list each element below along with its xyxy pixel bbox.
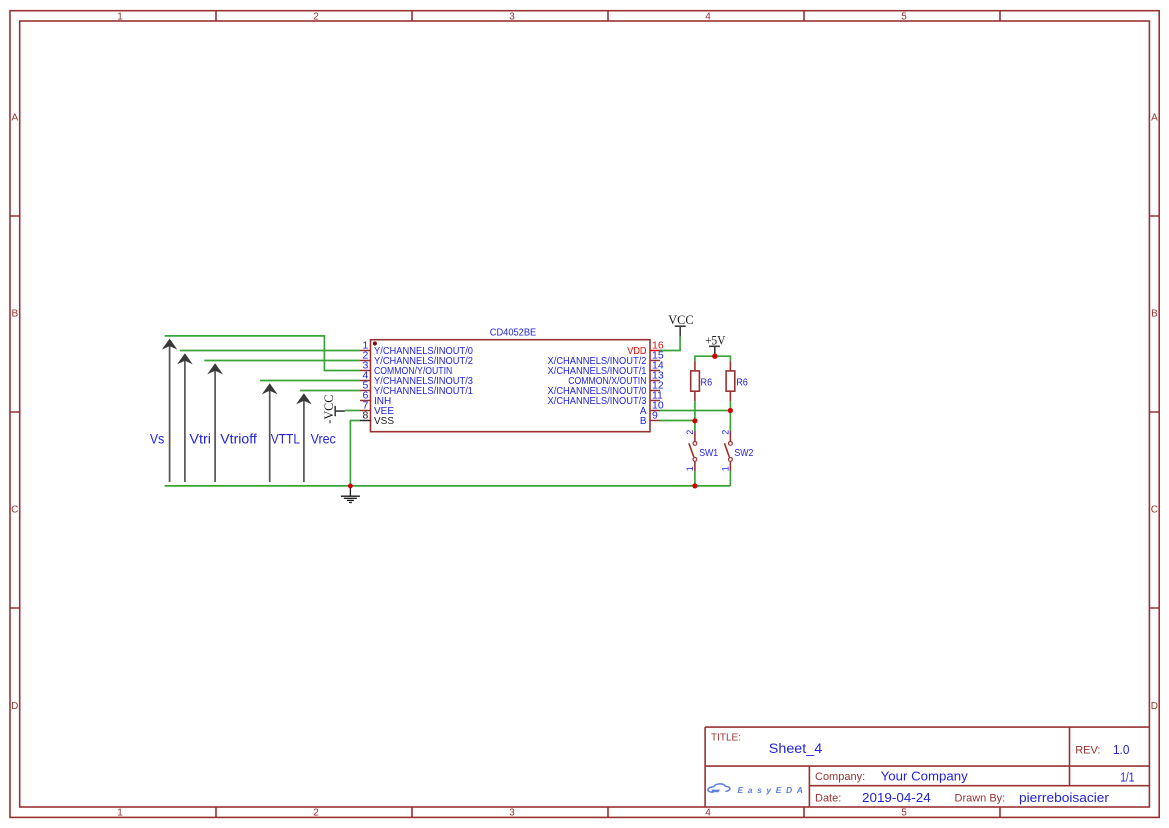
- wire R6a bottom to SW1 node B: [694, 401, 696, 431]
- svg-text:A: A: [11, 113, 18, 124]
- wire net Vrec to pin5: [300, 390, 360, 392]
- svg-text:2: 2: [721, 430, 731, 435]
- svg-text:Vs: Vs: [150, 431, 165, 446]
- svg-text:2019-04-24: 2019-04-24: [862, 790, 931, 805]
- power flag -VCC: [322, 395, 345, 424]
- wire R6b bottom to SW2 node A: [729, 401, 731, 431]
- power flag VCC: [668, 313, 693, 336]
- svg-text:Drawn By:: Drawn By:: [955, 793, 1006, 805]
- EasyEDA logo: [708, 784, 808, 795]
- wire -VCC to pin7 VEE: [345, 410, 360, 412]
- wire net VTTL to pin4: [260, 380, 360, 382]
- pin 1 Y/CHANNELS/INOUT/0: [360, 340, 473, 358]
- svg-text:8: 8: [362, 410, 368, 422]
- svg-text:SW1: SW1: [699, 448, 718, 459]
- svg-text:Vtri: Vtri: [189, 431, 211, 446]
- svg-text:3: 3: [509, 808, 515, 819]
- pin 16 VDD: [627, 340, 664, 358]
- pin 9 B: [640, 410, 660, 428]
- junction node A: [728, 408, 733, 413]
- svg-text:Date:: Date:: [815, 793, 841, 805]
- title block: [705, 727, 1149, 807]
- svg-text:1: 1: [721, 466, 731, 471]
- svg-text:pierreboisacier: pierreboisacier: [1019, 790, 1110, 805]
- svg-text:TITLE:: TITLE:: [711, 732, 741, 743]
- wire pin10 A row: [660, 410, 731, 412]
- svg-text:VSS: VSS: [374, 416, 394, 427]
- pin 5 Y/CHANNELS/INOUT/1: [360, 380, 473, 398]
- arrow VTTL: [262, 383, 278, 482]
- pin 10 A: [640, 400, 664, 418]
- svg-text:C: C: [11, 505, 18, 516]
- svg-text:B: B: [640, 416, 647, 427]
- svg-text:Vtrioff: Vtrioff: [220, 431, 257, 446]
- pin 12 X/CHANNELS/INOUT/0: [548, 380, 664, 398]
- svg-text:9: 9: [652, 410, 658, 422]
- pin 8 VSS: [360, 410, 394, 428]
- pin 2 Y/CHANNELS/INOUT/2: [360, 350, 473, 368]
- junction node B: [692, 418, 697, 423]
- svg-text:X/CHANNELS/INOUT/3: X/CHANNELS/INOUT/3: [548, 396, 647, 407]
- svg-text:B: B: [1151, 309, 1158, 320]
- svg-text:SW2: SW2: [734, 448, 753, 459]
- svg-text:1: 1: [685, 466, 695, 471]
- svg-text:1: 1: [117, 808, 123, 819]
- svg-text:Your Company: Your Company: [881, 769, 969, 784]
- pin 4 Y/CHANNELS/INOUT/3: [360, 370, 473, 388]
- svg-text:+5V: +5V: [705, 334, 726, 348]
- svg-text:Vrec: Vrec: [311, 431, 336, 446]
- svg-text:3: 3: [509, 11, 515, 22]
- junction ground rail at SW1: [692, 483, 697, 488]
- svg-text:4: 4: [705, 808, 711, 819]
- wire pin9 B row: [660, 420, 695, 422]
- wire bottom ground rail: [165, 485, 731, 487]
- ground: [341, 487, 360, 503]
- switch SW1: [685, 430, 718, 472]
- pin 14 X/CHANNELS/INOUT/1: [548, 360, 664, 378]
- wire pin8 VSS to ground rail: [350, 421, 360, 486]
- junction +5V rail: [712, 354, 717, 359]
- switch SW2: [721, 430, 754, 472]
- pin 7 VEE: [360, 400, 394, 418]
- arrow Vrec: [296, 393, 312, 482]
- arrow Vtrioff: [207, 363, 223, 482]
- svg-text:REV:: REV:: [1075, 744, 1100, 756]
- svg-text:4: 4: [705, 11, 711, 22]
- arrow Vtri: [177, 353, 193, 482]
- svg-text:2: 2: [313, 808, 319, 819]
- resistor R6 (right): [726, 361, 748, 401]
- svg-text:2: 2: [313, 11, 319, 22]
- pin 13 COMMON/X/OUTIN: [568, 370, 664, 388]
- wire SW1 bottom riser: [694, 471, 696, 486]
- svg-text:-VCC: -VCC: [322, 395, 336, 424]
- svg-text:A: A: [1151, 113, 1158, 124]
- pin 15 X/CHANNELS/INOUT/2: [548, 350, 664, 368]
- wire SW2 bottom riser: [729, 471, 731, 486]
- power flag +5V: [705, 334, 726, 357]
- svg-text:VTTL: VTTL: [271, 431, 301, 446]
- svg-text:1: 1: [117, 11, 123, 22]
- svg-text:EasyEDA: EasyEDA: [738, 785, 808, 795]
- wire net Vs to pin3: [165, 336, 360, 371]
- arrow Vs: [162, 339, 178, 482]
- svg-text:1.0: 1.0: [1113, 743, 1129, 757]
- pin 3 COMMON/Y/OUTIN: [360, 360, 452, 378]
- svg-text:Sheet_4: Sheet_4: [769, 741, 823, 756]
- svg-text:D: D: [11, 701, 18, 712]
- svg-text:C: C: [1151, 505, 1158, 516]
- resistor R6 (left): [691, 361, 713, 401]
- wire pin16 VDD to VCC flag: [660, 336, 680, 350]
- junction ground rail at GND: [348, 484, 353, 489]
- svg-text:1/1: 1/1: [1120, 770, 1134, 784]
- wire net Vtri to pin1: [180, 350, 360, 352]
- wire net Vtrioff to pin2: [204, 360, 360, 362]
- svg-text:5: 5: [901, 11, 907, 22]
- IC U1 CD4052BE: [371, 327, 651, 432]
- wire +5V rail: [695, 356, 731, 361]
- svg-text:VCC: VCC: [668, 313, 693, 327]
- pin 6 INH: [360, 390, 391, 408]
- svg-text:R6: R6: [736, 378, 748, 389]
- svg-text:B: B: [11, 309, 18, 320]
- svg-text:Company:: Company:: [815, 771, 865, 783]
- svg-text:R6: R6: [701, 378, 713, 389]
- svg-text:2: 2: [685, 430, 695, 435]
- svg-text:D: D: [1151, 701, 1158, 712]
- svg-text:CD4052BE: CD4052BE: [490, 327, 537, 339]
- svg-text:5: 5: [901, 808, 907, 819]
- pin 11 X/CHANNELS/INOUT/3: [548, 390, 664, 408]
